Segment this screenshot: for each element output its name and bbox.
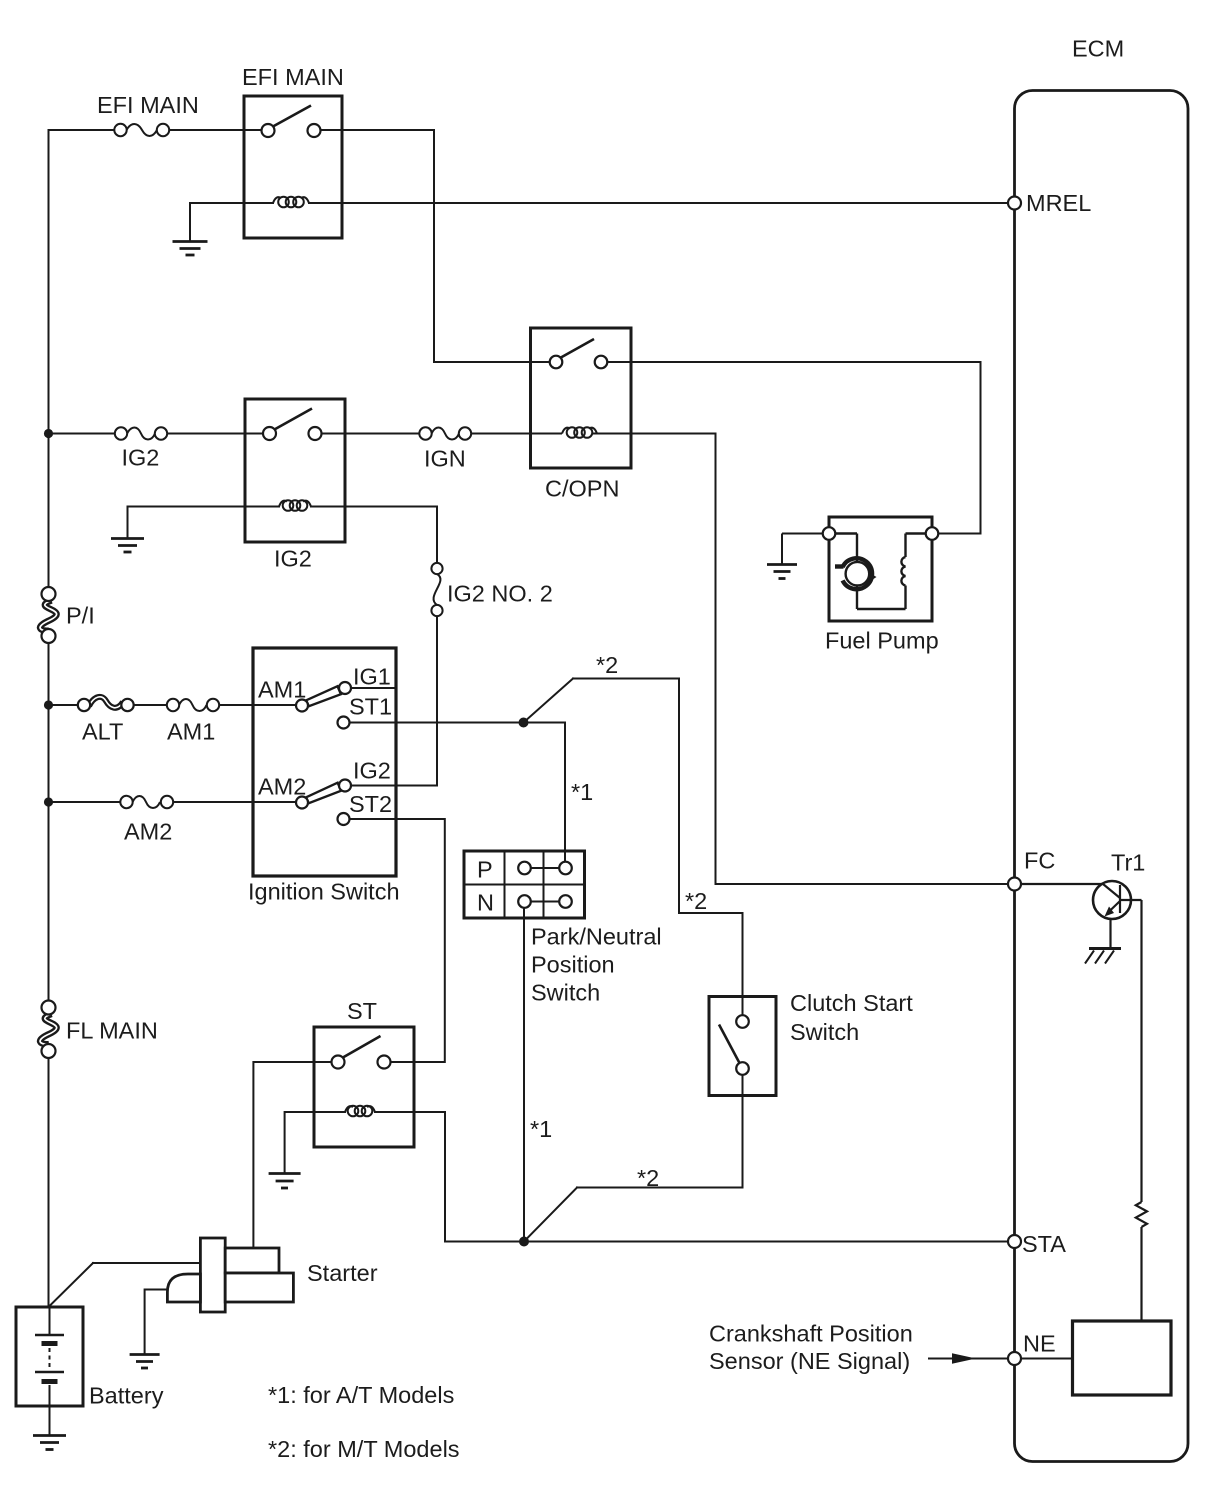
transistor Tr1 circle xyxy=(1093,881,1131,919)
svg-text:ECM: ECM xyxy=(1072,36,1124,62)
svg-text:C/OPN: C/OPN xyxy=(545,476,619,502)
starter upper terminal rect xyxy=(225,1248,279,1273)
svg-text:AM1: AM1 xyxy=(167,719,215,745)
wire EFI relay coil ground stem xyxy=(189,203,191,240)
clutch start switch blade xyxy=(719,1025,740,1064)
ground IG2 relay coil xyxy=(111,539,144,553)
svg-text:*1: for A/T Models: *1: for A/T Models xyxy=(268,1382,454,1408)
wire ST relay coil leads and ground stem xyxy=(285,1112,445,1172)
svg-text:Sensor (NE Signal): Sensor (NE Signal) xyxy=(709,1348,910,1374)
relay EFI MAIN contact right xyxy=(308,124,321,137)
svg-text:NE: NE xyxy=(1023,1331,1056,1357)
fusible link ALT (horizontal) xyxy=(78,697,134,711)
fuse IG2 xyxy=(115,427,167,439)
ignition switch IG2 contact xyxy=(339,780,351,792)
svg-text:ST1: ST1 xyxy=(349,694,392,720)
wire top feed to EFI MAIN relay xyxy=(49,129,435,131)
starter solenoid rect xyxy=(200,1238,225,1312)
ground EFI relay coil xyxy=(173,242,208,256)
svg-text:FC: FC xyxy=(1024,848,1055,874)
wire crankshaft sensor arrow line xyxy=(929,1358,1007,1360)
wire ST relay contact to starter xyxy=(253,1062,331,1248)
svg-text:FL MAIN: FL MAIN xyxy=(66,1018,158,1044)
relay ST contact right xyxy=(378,1056,391,1069)
fuse AM1 xyxy=(167,699,219,711)
relay EFI MAIN box xyxy=(244,96,342,238)
svg-text:IG2: IG2 xyxy=(122,445,160,471)
wire fuel pump left terminal to ground xyxy=(782,534,823,564)
relay C/OPN contact left xyxy=(550,356,563,369)
relay IG2 contact left xyxy=(263,427,276,440)
starter motor housing xyxy=(167,1274,200,1302)
ground ST relay coil xyxy=(269,1174,301,1189)
wire EFI relay output down to C/OPN xyxy=(434,130,550,362)
svg-text:IGN: IGN xyxy=(424,446,466,472)
ignition switch AM2 contact xyxy=(296,797,308,809)
svg-text:IG2: IG2 xyxy=(353,758,391,784)
ignition switch box xyxy=(253,648,396,876)
park/neutral position switch box xyxy=(464,851,585,918)
svg-text:Starter: Starter xyxy=(307,1260,378,1286)
ignition switch ST1 contact xyxy=(338,717,350,729)
ground battery xyxy=(33,1436,66,1450)
svg-text:STA: STA xyxy=(1022,1231,1066,1257)
node junction AM1 feed xyxy=(44,700,53,709)
relay IG2 switch blade xyxy=(274,409,313,431)
wire IG2 relay coil leads and ground xyxy=(128,507,438,539)
relay IG2 contact right xyxy=(309,427,322,440)
ignition switch AM1 contact xyxy=(296,700,308,712)
crankshaft sensor arrowhead xyxy=(952,1353,976,1364)
svg-text:Position: Position xyxy=(531,952,615,978)
svg-text:Tr1: Tr1 xyxy=(1111,850,1145,876)
wire IG2 NO.2 branch vertical xyxy=(351,507,437,786)
fuse AM2 xyxy=(120,796,173,808)
relay ST contact left xyxy=(332,1056,345,1069)
node junction IG2 feed xyxy=(44,429,53,438)
wire C/OPN coil to FC vertical xyxy=(631,434,1008,885)
node junction STA branch xyxy=(519,1237,529,1247)
relay IG2 box xyxy=(245,399,345,542)
fuse IGN xyxy=(419,427,471,439)
svg-text:*2: *2 xyxy=(637,1165,659,1191)
svg-text:ST: ST xyxy=(347,998,377,1024)
park/neutral P row contact link xyxy=(525,867,566,869)
battery internal cells xyxy=(35,1307,64,1406)
fuel pump motor circle xyxy=(846,562,870,586)
ground fuel pump xyxy=(767,565,797,579)
svg-text:*2: for M/T Models: *2: for M/T Models xyxy=(268,1436,460,1462)
wire STA line xyxy=(445,1112,1008,1242)
fuel pump motor rotation arc xyxy=(843,558,872,589)
wire NE pin to NE box xyxy=(1021,1358,1073,1360)
ECM pin NE xyxy=(1008,1352,1021,1365)
wire C/OPN switch output to fuel pump xyxy=(608,362,981,534)
svg-text:AM2: AM2 xyxy=(124,819,172,845)
clutch start switch contact top xyxy=(736,1015,749,1028)
svg-text:ST2: ST2 xyxy=(349,791,392,817)
wire IG1 stub xyxy=(351,687,396,689)
wire MREL line from EFI relay coil to ECM xyxy=(190,202,1008,204)
starter lower body rect xyxy=(225,1273,293,1302)
svg-text:Clutch Start: Clutch Start xyxy=(790,990,913,1016)
relay C/OPN contact right xyxy=(595,356,608,369)
node junction AM2 feed xyxy=(44,797,53,806)
fuse EFI MAIN xyxy=(114,124,169,136)
wire ST1 to P/N switch xyxy=(350,723,566,862)
relay EFI MAIN contact left xyxy=(262,124,275,137)
ignition switch IG1 contact xyxy=(339,682,351,694)
fuel pump terminal right xyxy=(926,527,939,540)
svg-text:Crankshaft Position: Crankshaft Position xyxy=(709,1321,913,1347)
fuel pump motor tail xyxy=(835,564,844,568)
clutch start switch box xyxy=(709,997,776,1096)
svg-text:*2: *2 xyxy=(596,652,618,678)
fuel pump box xyxy=(829,517,932,621)
svg-text:IG2 NO. 2: IG2 NO. 2 xyxy=(447,581,553,607)
fuel pump terminal left xyxy=(823,527,836,540)
clutch start switch contact bottom xyxy=(736,1062,749,1075)
wire ALT/AM1 feed y705 xyxy=(49,704,297,706)
fuel pump coil (vertical) xyxy=(901,557,905,586)
ECM pin STA xyxy=(1008,1235,1021,1248)
fuse IG2 NO. 2 (vertical) xyxy=(431,563,442,616)
wire battery negative to ground xyxy=(49,1406,51,1434)
relay IG2 coil xyxy=(279,500,311,511)
node junction ST1 branch xyxy=(519,718,529,728)
fusible link P/I (vertical) xyxy=(40,587,57,643)
relay ST coil xyxy=(345,1106,375,1117)
svg-text:*2: *2 xyxy=(685,888,707,914)
battery box xyxy=(16,1307,83,1406)
ECM box xyxy=(1015,91,1189,1462)
wire P/N switch to STA junction (*1) xyxy=(523,908,525,1242)
relay EFI MAIN coil xyxy=(273,197,309,208)
wire IG2 switch contact stub xyxy=(351,785,397,787)
relay ST switch blade xyxy=(342,1036,381,1058)
svg-text:MREL: MREL xyxy=(1026,190,1091,216)
svg-text:N: N xyxy=(477,890,494,916)
svg-text:AM1: AM1 xyxy=(258,677,306,703)
relay C/OPN box xyxy=(531,328,632,468)
wire AM2 feed y802 xyxy=(49,801,297,803)
svg-text:EFI MAIN: EFI MAIN xyxy=(242,64,344,90)
svg-text:*1: *1 xyxy=(530,1116,552,1142)
wire IG2 line y434 xyxy=(49,433,632,435)
wire ST2 to ST relay xyxy=(350,819,445,1062)
ground Tr1 (slanted style) xyxy=(1085,949,1121,964)
svg-text:*1: *1 xyxy=(571,779,593,805)
ignition switch ST2 contact xyxy=(338,813,350,825)
svg-text:P: P xyxy=(477,857,493,883)
svg-text:Fuel Pump: Fuel Pump xyxy=(825,628,939,654)
svg-text:IG1: IG1 xyxy=(353,664,391,690)
park/neutral switch grid lines xyxy=(464,851,585,918)
transistor Tr1 emitter arrow xyxy=(1105,907,1115,917)
park/neutral N row contacts xyxy=(518,895,531,908)
svg-text:Park/Neutral: Park/Neutral xyxy=(531,924,662,950)
resistor inside ECM xyxy=(1136,900,1147,1321)
relay ST box xyxy=(314,1027,414,1147)
ignition switch AM1 blade xyxy=(306,686,341,706)
ECM pin FC xyxy=(1008,878,1021,891)
fusible link FL MAIN (vertical) xyxy=(40,1001,57,1059)
transistor Tr1 wires xyxy=(1021,884,1142,948)
fuel pump motor arrow tip xyxy=(867,572,877,584)
park/neutral N row contact link xyxy=(525,901,566,903)
NE signal box inside ECM xyxy=(1073,1321,1172,1395)
ignition switch AM2 blade xyxy=(306,783,341,804)
ground starter motor xyxy=(130,1355,160,1369)
svg-text:Switch: Switch xyxy=(790,1019,859,1045)
wire clutch switch to STA junction (*2) xyxy=(524,1075,743,1242)
svg-text:P/I: P/I xyxy=(66,603,95,629)
relay C/OPN switch blade xyxy=(560,339,594,358)
wire battery positive to starter xyxy=(49,1263,201,1307)
svg-text:EFI MAIN: EFI MAIN xyxy=(97,92,199,118)
svg-text:Battery: Battery xyxy=(89,1383,164,1409)
fuel pump internal wiring xyxy=(836,534,926,610)
ECM pin MREL xyxy=(1008,197,1021,210)
park/neutral P row contacts xyxy=(518,862,531,875)
relay C/OPN coil xyxy=(562,427,597,438)
svg-text:AM2: AM2 xyxy=(258,774,306,800)
relay EFI MAIN switch blade xyxy=(272,106,311,128)
wire *2 branch from ST1 junction to clutch switch xyxy=(524,679,743,1016)
wire starter motor to ground xyxy=(145,1290,168,1354)
svg-text:Switch: Switch xyxy=(531,980,600,1006)
svg-text:Ignition Switch: Ignition Switch xyxy=(248,879,400,905)
wire left main rail xyxy=(48,130,50,1307)
svg-text:IG2: IG2 xyxy=(274,546,312,572)
svg-text:ALT: ALT xyxy=(82,719,123,745)
